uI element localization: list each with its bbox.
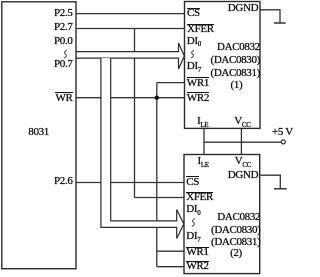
data bus branch down into DI pins of DAC2 [101, 58, 184, 238]
label (DAC0830) DAC2 [211, 225, 260, 236]
wire DGND1 to ground [260, 10, 280, 23]
box DAC2 [184, 155, 260, 274]
label WR2 DAC1 [187, 93, 209, 104]
label P0.0 [54, 36, 72, 47]
open terminal circle +5V [281, 140, 285, 144]
label +5 V [272, 127, 293, 138]
label 8031 [28, 127, 49, 138]
label P2.7 [54, 22, 72, 33]
label DI7 DAC1 [187, 61, 201, 72]
label DI0 DAC1 [187, 36, 201, 47]
label WR1 DAC2 [186, 247, 208, 258]
label DGND DAC1 [228, 3, 258, 14]
label WR1 DAC1 [187, 78, 209, 89]
label ILE DAC1 [197, 116, 208, 127]
ground bar DGND1 [274, 22, 286, 24]
label WR2 DAC2 [186, 261, 208, 272]
ground bar DGND2 [274, 188, 287, 190]
label VCC DAC2 [235, 156, 251, 167]
label DAC0832 DAC1 [217, 42, 260, 53]
label (2) DAC2 [230, 248, 242, 259]
wire WR branch vertical down to DAC2 [156, 83, 158, 267]
label DAC0832 DAC2 [217, 212, 260, 223]
label CS1 [187, 8, 200, 19]
label P0.7 [54, 59, 72, 70]
junction dot WR net [155, 96, 159, 100]
squiggle DI DAC2 [192, 219, 195, 227]
wire WR1 pin of DAC1 to corner [157, 82, 185, 84]
label WR 8031 [55, 93, 72, 104]
label DI0 DAC2 [186, 204, 200, 215]
label P2.6 [54, 176, 72, 187]
box 8031 [2, 2, 76, 269]
label DI7 DAC2 [186, 231, 200, 242]
data bus arrow P0.0-P0.7 into DI pins of DAC1 [76, 43, 184, 69]
label (DAC0831) DAC1 [211, 68, 260, 79]
wire ILE vertical between DAC1 and DAC2 [203, 128, 205, 154]
wire DGND2 to ground [260, 175, 281, 189]
label (DAC0831) DAC2 [211, 237, 260, 248]
wire XFER2 horizontal into XFER2 pin [135, 197, 185, 199]
label ILE DAC2 [198, 156, 209, 167]
box DAC1 [185, 2, 261, 129]
label DGND DAC2 [228, 170, 258, 181]
label XFER1 [187, 24, 214, 35]
wire P2.5 to CS1 [76, 13, 185, 15]
squiggle DI DAC1 [191, 50, 194, 58]
wire P2.7 to XFER1 [76, 28, 185, 30]
wire WR1 pin of DAC2 [157, 250, 184, 252]
label (1) DAC1 [231, 80, 243, 91]
wire WR from 8031 to WR2 pin of DAC1 [76, 97, 185, 99]
wire P2.6 to CS2 [76, 182, 184, 184]
wire VCC vertical between DAC1 and DAC2 [240, 128, 242, 154]
label P2.5 [54, 8, 72, 19]
squiggle 8031 ports [64, 50, 67, 58]
wire WR2 pin of DAC2 [157, 266, 184, 268]
label VCC DAC1 [234, 116, 250, 127]
label (DAC0830) DAC1 [211, 55, 260, 66]
label XFER2 [186, 192, 213, 203]
wire XFER2 branch vertical from P2.7 line [134, 29, 136, 198]
label CS2 [186, 177, 199, 188]
wire +5V supply [204, 141, 281, 143]
